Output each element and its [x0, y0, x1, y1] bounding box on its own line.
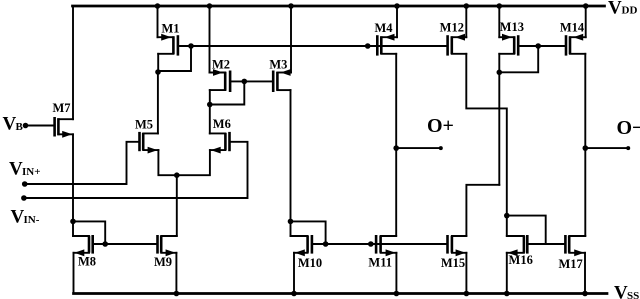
transistor M3 [269, 57, 291, 92]
svg-text:DD: DD [622, 5, 638, 17]
node VSS-M10 [291, 291, 297, 297]
svg-text:SS: SS [627, 290, 639, 299]
node O- terminal [626, 146, 630, 150]
wire VDD to M12 source [465, 6, 467, 37]
label VIN- [11, 206, 40, 227]
wire M8 source to VSS [73, 253, 75, 294]
wire VDD to M7 drain [72, 6, 74, 119]
svg-text:M9: M9 [154, 255, 172, 269]
node O- tap [583, 145, 589, 151]
wire M16 source to VSS [506, 253, 508, 294]
svg-text:M1: M1 [161, 22, 179, 36]
svg-text:M16: M16 [509, 253, 533, 267]
svg-text:M5: M5 [135, 117, 153, 131]
svg-text:O+: O+ [427, 115, 454, 137]
wire M13-M14 gate line [518, 45, 566, 47]
wire M3 drain branch to M10 gate [291, 221, 326, 244]
svg-text:M13: M13 [500, 20, 524, 34]
label VSS [614, 282, 639, 299]
wire M1 drain diode loop [158, 46, 191, 71]
wire M8-M9 gate line [93, 243, 158, 245]
svg-text:B: B [16, 121, 24, 133]
node M10 gate junction [323, 241, 329, 247]
node M2/M3 gate junction [242, 79, 248, 85]
svg-text:V: V [9, 159, 23, 180]
wire M13 drain down [498, 54, 500, 185]
svg-text:V: V [608, 0, 622, 19]
node VSS-M15 [464, 291, 470, 297]
node M4 gate tap [365, 43, 371, 49]
wire M16 diode branch to gates [507, 216, 546, 244]
wire M14 drain down to M17 drain [584, 54, 586, 236]
node VIN- terminal [21, 195, 27, 201]
transistor M16 [507, 235, 533, 267]
wire M17 source to VSS [584, 253, 586, 294]
wire M7 source down to M8 drain [72, 134, 74, 235]
node O+ tap [393, 145, 399, 151]
transistor M15 [441, 235, 467, 270]
node M1 drain / M5 drain [155, 69, 161, 75]
svg-text:M4: M4 [374, 21, 393, 35]
node M2 diode [207, 102, 213, 108]
svg-text:M6: M6 [213, 117, 231, 131]
node M11 gate tap [368, 241, 374, 247]
svg-text:M3: M3 [269, 57, 287, 71]
label VDD [608, 0, 637, 19]
wire tail down to M9 drain [176, 175, 178, 236]
node VSS-M11 [394, 291, 400, 297]
wire VDD to M4 source [396, 6, 398, 37]
transistor M5 [135, 117, 158, 153]
label VIN+ [9, 159, 41, 180]
wire M3 drain down to M10 drain [290, 90, 292, 236]
bias line M1 gate to M4/M12 gates [178, 45, 448, 47]
wire tail node M5/M6 sources [158, 150, 210, 175]
node O+ terminal [439, 146, 443, 150]
transistor M12 [440, 21, 467, 56]
wire VDD to M3 source [290, 6, 292, 73]
wire M15 source to VSS [465, 253, 467, 294]
wire VIN+ to M5 gate [25, 142, 140, 184]
transistor M13 [499, 20, 524, 56]
node M1 diode gate tap [188, 43, 194, 49]
wire VDD to M2 source [209, 6, 211, 73]
wire O- tap [585, 147, 628, 149]
svg-text:V: V [11, 206, 25, 227]
VDD rail [73, 5, 605, 8]
svg-text:IN+: IN+ [22, 166, 41, 178]
node M8 gate junction [102, 241, 108, 247]
node VDD-M13 [497, 3, 503, 9]
svg-text:M7: M7 [52, 101, 70, 115]
wire VDD to M1 source [157, 6, 159, 37]
wire M16-M17 gate line [527, 243, 565, 245]
svg-text:M2: M2 [212, 57, 230, 71]
wire M2 diode loop [210, 81, 245, 104]
wire M13 diode loop [499, 46, 538, 72]
node M13 diode [497, 70, 503, 76]
node VIN+ terminal [22, 181, 28, 187]
svg-text:M17: M17 [558, 257, 582, 271]
wire VDD to M13 source [498, 6, 500, 37]
transistor M17 [558, 235, 585, 271]
wire node A branch to M8 gate [73, 221, 105, 244]
transistor M4 [374, 21, 397, 56]
node VDD-M14 [583, 3, 589, 9]
svg-text:M14: M14 [560, 21, 585, 35]
transistor M10 [291, 235, 323, 270]
node VDD-M2 [207, 3, 213, 9]
wire M10-M11-M15 gate line [312, 243, 448, 245]
node VB terminal [23, 123, 29, 129]
transistor M8 [73, 235, 96, 269]
transistor M1 [158, 22, 180, 56]
wire M12 drain to M16 drain [466, 54, 507, 236]
node M16 diode tap [504, 213, 510, 219]
wire VDD to M14 source [585, 6, 587, 37]
wire M4 drain down to M11 drain [395, 54, 397, 236]
label VB [3, 114, 24, 135]
svg-text:V: V [614, 282, 628, 299]
svg-text:M11: M11 [368, 255, 392, 269]
node VDD-M3 [288, 3, 294, 9]
svg-text:IN-: IN- [24, 214, 40, 226]
node VSS-M16 [504, 291, 510, 297]
VSS rail [74, 292, 608, 295]
transistor M2 [210, 57, 231, 92]
svg-text:V: V [3, 114, 17, 135]
svg-text:M15: M15 [441, 256, 465, 270]
svg-text:O−: O− [617, 117, 640, 139]
wire M9 source to VSS [175, 253, 177, 294]
node M7 source / M8 diode [70, 219, 76, 225]
svg-text:M10: M10 [298, 256, 322, 270]
wire M13 drain jog to M15 drain [466, 185, 499, 236]
wire M2 drain down to M6 drain [209, 90, 211, 133]
svg-text:M12: M12 [440, 21, 464, 35]
transistor M11 [368, 235, 396, 269]
node VDD-M1 [155, 3, 161, 9]
transistor M14 [560, 21, 586, 56]
wire M11 source to VSS [395, 253, 397, 294]
wire VIN- to M6 gate [24, 142, 248, 198]
wire M2-M3 gate line [230, 80, 273, 82]
transistor M9 [154, 235, 177, 269]
wire M1 drain down to M5 drain [157, 71, 159, 133]
node M3/M10 diode [288, 219, 294, 225]
transistor M6 [210, 117, 231, 154]
node tail junction [174, 172, 180, 178]
wire VB lead [26, 125, 55, 127]
node M13/M14 gate junction [535, 43, 541, 49]
transistor M7 [52, 101, 73, 138]
node VSS-M9 [174, 291, 180, 297]
node VSS-M17 [582, 291, 588, 297]
node VDD-M4 [394, 3, 400, 9]
node VDD-M12 [464, 3, 470, 9]
svg-text:M8: M8 [78, 255, 96, 269]
wire M10 source to VSS [293, 253, 295, 294]
wire O+ tap [396, 147, 441, 149]
